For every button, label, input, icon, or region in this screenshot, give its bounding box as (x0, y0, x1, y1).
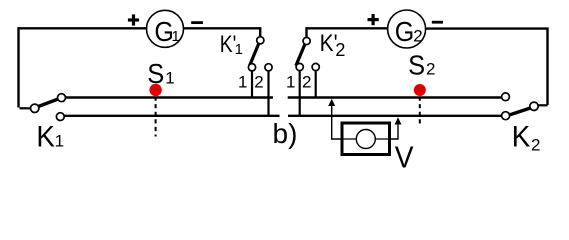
switch K2 (502, 93, 548, 120)
svg-text:G: G (395, 16, 415, 47)
+ polarity mark of G1 (128, 14, 139, 25)
svg-text:V: V (395, 139, 414, 174)
wire: voltmeter left lead to upper rail (arrow) (328, 99, 342, 139)
wire: left edge + top-left segment to G1 (19, 28, 147, 107)
+ polarity mark of G2 (368, 14, 379, 25)
switch K'1 (248, 37, 272, 71)
wire: K'2 throw 2 stub to upper rail (315, 71, 317, 97)
svg-text:2: 2 (413, 26, 422, 45)
svg-text:1: 1 (55, 132, 64, 151)
switch K'2 (296, 37, 319, 70)
svg-text:1: 1 (172, 28, 180, 45)
wire: K'1 throw 2 stub to lower rail (267, 71, 269, 115)
svg-text:2: 2 (426, 60, 435, 79)
wire: K'1 throw 1 stub to upper rail (251, 71, 253, 97)
wire: K'2 pole from top wire (307, 28, 388, 37)
switch K1 (20, 94, 66, 121)
svg-text:K: K (512, 120, 531, 153)
svg-text:2: 2 (302, 72, 311, 91)
svg-text:2: 2 (335, 40, 345, 60)
svg-text:1: 1 (165, 69, 174, 88)
wire: right lower rail (288, 115, 502, 117)
dashed position marker under S2 (419, 97, 421, 127)
- polarity mark of G2 (432, 21, 443, 24)
svg-text:1: 1 (235, 41, 243, 58)
wire: left upper rail (65, 96, 273, 98)
svg-text:K: K (36, 120, 55, 153)
svg-text:S: S (408, 49, 425, 80)
svg-text:2: 2 (531, 136, 540, 155)
sliding contact S2 (red dot) (414, 84, 426, 96)
sliding contact S1 (red dot) (149, 84, 161, 96)
wire: voltmeter right lead to lower rail (arrow) (390, 117, 402, 139)
wire: left lower rail (64, 115, 280, 117)
voltmeter V (342, 123, 390, 155)
svg-text:b): b) (273, 118, 298, 149)
- polarity mark of G1 (191, 21, 203, 24)
wire: right upper rail (288, 96, 502, 98)
svg-text:2: 2 (254, 72, 263, 91)
svg-text:S: S (147, 58, 164, 89)
wire: G2 to right edge, down to K2 (426, 29, 548, 105)
wire: G1 to K'1 pole (184, 28, 261, 36)
dashed position marker under S1 (155, 97, 157, 137)
galvanometer G2 (388, 10, 426, 48)
svg-text:1: 1 (286, 72, 295, 91)
wire: K'2 throw 1 stub to lower rail (299, 71, 301, 115)
galvanometer G1 (147, 10, 184, 47)
svg-text:1: 1 (238, 72, 247, 91)
